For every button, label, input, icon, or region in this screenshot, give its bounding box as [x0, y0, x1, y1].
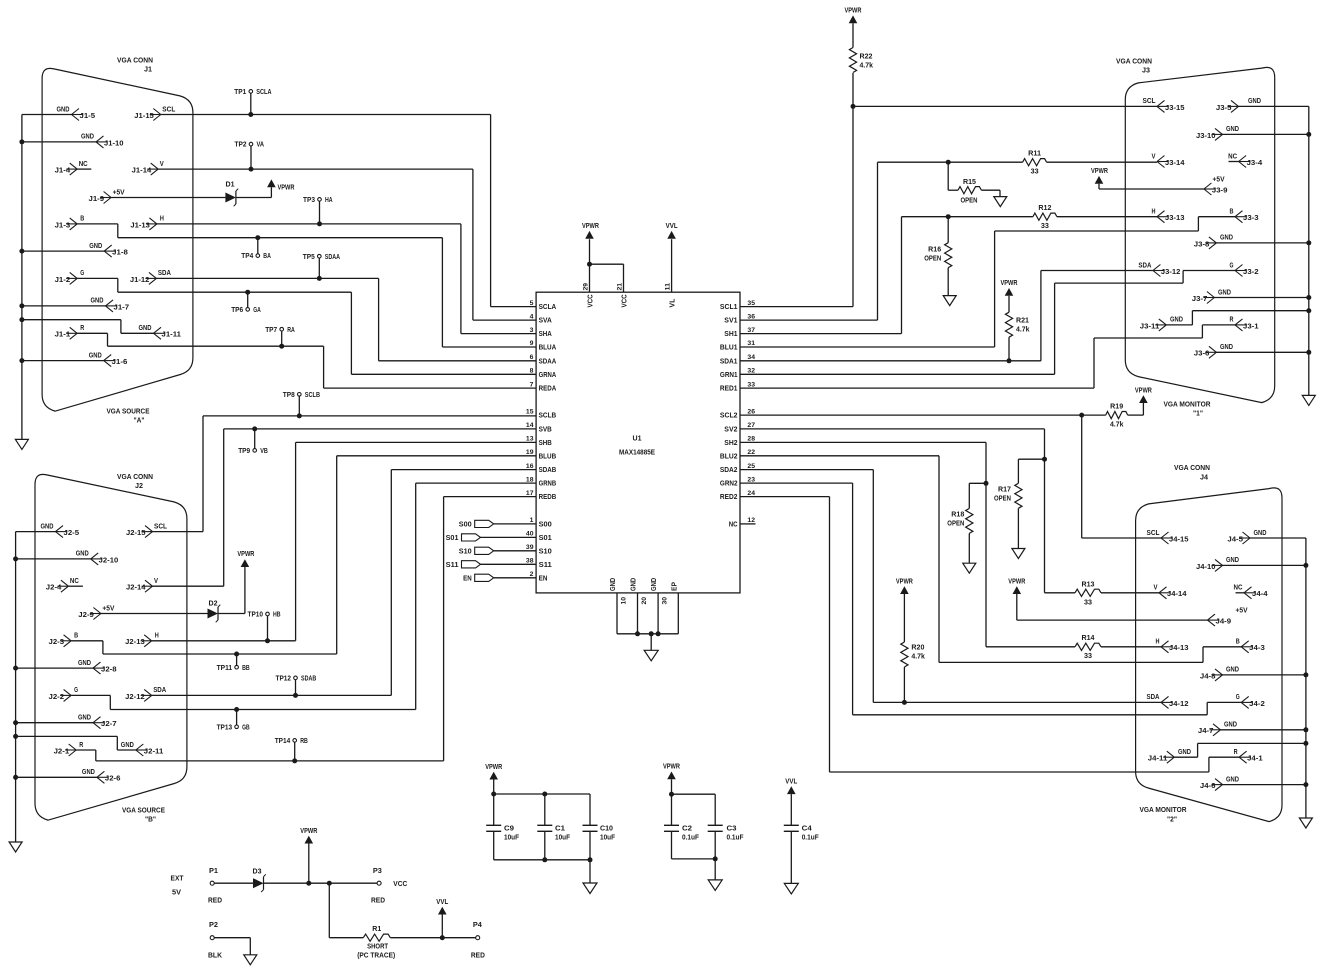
svg-text:0.1uF: 0.1uF [727, 835, 745, 842]
svg-text:P1: P1 [209, 868, 218, 875]
svg-text:SCL1: SCL1 [720, 304, 738, 311]
svg-text:SDA1: SDA1 [720, 358, 738, 365]
svg-text:R18: R18 [951, 512, 964, 519]
svg-text:33: 33 [1041, 223, 1049, 230]
svg-text:SDAB: SDAB [301, 676, 316, 683]
svg-text:37: 37 [747, 327, 755, 334]
svg-text:33: 33 [1084, 599, 1092, 606]
svg-text:28: 28 [747, 436, 755, 443]
svg-text:REDA: REDA [539, 386, 557, 393]
svg-text:J3-8: J3-8 [1194, 241, 1210, 248]
svg-text:VPWR: VPWR [485, 764, 502, 771]
svg-text:SCLB: SCLB [305, 392, 320, 399]
svg-text:13: 13 [526, 436, 534, 443]
svg-text:J4-13: J4-13 [1169, 645, 1189, 652]
svg-text:GND: GND [57, 106, 70, 113]
svg-text:VPWR: VPWR [1001, 280, 1018, 287]
svg-text:J3-15: J3-15 [1165, 105, 1185, 112]
svg-text:J3-7: J3-7 [1192, 296, 1208, 303]
svg-text:40: 40 [526, 531, 534, 538]
svg-text:16: 16 [526, 463, 534, 470]
svg-text:HB: HB [273, 612, 281, 619]
svg-text:SDAB: SDAB [539, 467, 557, 474]
svg-text:GND: GND [1218, 289, 1231, 296]
svg-text:VGA CONN: VGA CONN [1116, 59, 1152, 66]
svg-text:GND: GND [1220, 235, 1233, 242]
svg-text:J1-4: J1-4 [55, 168, 71, 175]
svg-text:5: 5 [530, 300, 534, 307]
svg-text:22: 22 [747, 449, 755, 456]
svg-text:OPEN: OPEN [994, 496, 1011, 503]
svg-text:29: 29 [583, 283, 590, 291]
svg-text:R: R [1234, 749, 1238, 756]
svg-text:38: 38 [526, 558, 534, 565]
svg-text:J1-14: J1-14 [132, 168, 152, 175]
svg-text:P4: P4 [473, 922, 482, 929]
svg-text:J4-10: J4-10 [1196, 564, 1216, 571]
svg-text:TP4: TP4 [241, 253, 253, 260]
svg-text:TP8: TP8 [283, 392, 295, 399]
svg-text:H: H [155, 633, 159, 640]
svg-text:GND: GND [1220, 344, 1233, 351]
svg-text:J2-5: J2-5 [64, 530, 80, 537]
svg-text:R20: R20 [911, 645, 924, 652]
svg-text:OPEN: OPEN [947, 521, 964, 528]
svg-text:GND: GND [1170, 317, 1183, 324]
svg-text:J4-12: J4-12 [1169, 701, 1189, 708]
svg-text:EN: EN [539, 575, 548, 582]
svg-text:GRNB: GRNB [539, 481, 557, 488]
svg-text:GND: GND [78, 660, 91, 667]
svg-text:J3-1: J3-1 [1243, 323, 1259, 330]
svg-text:J2-7: J2-7 [101, 721, 117, 728]
svg-text:TP11: TP11 [217, 665, 233, 672]
svg-text:GND: GND [1226, 667, 1239, 674]
svg-text:10: 10 [620, 597, 627, 605]
svg-text:R14: R14 [1082, 635, 1095, 642]
svg-text:S01: S01 [446, 535, 459, 542]
svg-text:1: 1 [530, 517, 534, 524]
svg-text:SCLB: SCLB [539, 413, 557, 420]
svg-text:J4-14: J4-14 [1167, 591, 1187, 598]
svg-text:0.1uF: 0.1uF [802, 835, 820, 842]
svg-text:GND: GND [121, 742, 134, 749]
svg-text:G: G [80, 270, 84, 277]
svg-text:VGA MONITOR: VGA MONITOR [1164, 402, 1211, 409]
svg-text:EN: EN [463, 575, 472, 582]
svg-text:R17: R17 [998, 487, 1011, 494]
svg-text:J1-11: J1-11 [162, 332, 182, 339]
svg-text:TP6: TP6 [231, 307, 243, 314]
svg-text:SCLA: SCLA [256, 89, 271, 96]
svg-text:C4: C4 [802, 826, 812, 833]
svg-text:J1-5: J1-5 [80, 113, 96, 120]
svg-text:TP1: TP1 [234, 89, 246, 96]
svg-text:VPWR: VPWR [237, 551, 254, 558]
svg-text:G: G [1230, 262, 1234, 269]
svg-text:J2-12: J2-12 [125, 694, 145, 701]
svg-text:J4-8: J4-8 [1200, 673, 1216, 680]
svg-text:27: 27 [747, 422, 755, 429]
svg-text:J3-4: J3-4 [1247, 160, 1263, 167]
svg-text:34: 34 [747, 354, 755, 361]
svg-text:VVL: VVL [436, 899, 449, 906]
svg-text:9: 9 [530, 340, 534, 347]
svg-text:J2-14: J2-14 [126, 585, 146, 592]
svg-text:J4-11: J4-11 [1148, 756, 1168, 763]
svg-text:R22: R22 [860, 54, 873, 61]
svg-text:+5V: +5V [1213, 177, 1225, 184]
svg-text:B: B [1236, 639, 1240, 646]
svg-text:21: 21 [617, 283, 624, 291]
svg-text:SCL: SCL [1147, 530, 1161, 537]
svg-text:OPEN: OPEN [924, 256, 941, 263]
svg-text:TP9: TP9 [238, 448, 250, 455]
svg-text:GND: GND [651, 578, 658, 591]
svg-text:GND: GND [631, 578, 638, 591]
svg-text:GND: GND [78, 715, 91, 722]
svg-text:VPWR: VPWR [1008, 578, 1025, 585]
svg-text:J4-6: J4-6 [1200, 783, 1216, 790]
svg-text:SDAA: SDAA [539, 358, 557, 365]
svg-text:SDA: SDA [153, 687, 166, 694]
svg-text:TP10: TP10 [248, 612, 264, 619]
svg-text:SCL2: SCL2 [720, 413, 738, 420]
svg-text:RA: RA [287, 327, 295, 334]
svg-text:SHORT: SHORT [367, 944, 389, 951]
svg-text:TP5: TP5 [303, 254, 315, 261]
svg-text:SV2: SV2 [724, 427, 737, 434]
svg-text:J4-4: J4-4 [1252, 591, 1268, 598]
svg-text:35: 35 [747, 300, 755, 307]
svg-text:SCL: SCL [162, 106, 176, 113]
svg-text:D3: D3 [253, 869, 262, 876]
svg-text:BLU2: BLU2 [720, 453, 738, 460]
svg-text:J1-13: J1-13 [130, 222, 150, 229]
svg-text:R15: R15 [963, 179, 976, 186]
svg-text:J1-3: J1-3 [55, 222, 71, 229]
svg-text:23: 23 [747, 476, 755, 483]
svg-text:REDB: REDB [539, 494, 557, 501]
svg-text:S00: S00 [539, 522, 552, 529]
svg-text:V: V [160, 161, 164, 168]
svg-text:SHA: SHA [539, 331, 552, 338]
svg-text:VGA CONN: VGA CONN [117, 58, 153, 65]
svg-text:C2: C2 [682, 826, 692, 833]
svg-text:TP13: TP13 [217, 724, 233, 731]
svg-text:VGA SOURCE: VGA SOURCE [107, 409, 150, 416]
svg-text:J4-2: J4-2 [1249, 701, 1265, 708]
svg-text:"1": "1" [1193, 411, 1203, 418]
svg-text:14: 14 [526, 422, 534, 429]
svg-text:GND: GND [1224, 722, 1237, 729]
svg-text:R13: R13 [1082, 581, 1095, 588]
svg-text:VL: VL [670, 298, 677, 308]
svg-text:J4-9: J4-9 [1216, 619, 1232, 626]
svg-text:NC: NC [1234, 585, 1243, 592]
svg-text:+5V: +5V [113, 189, 125, 196]
svg-text:GND: GND [1178, 749, 1191, 756]
svg-text:6: 6 [530, 354, 534, 361]
svg-text:SH1: SH1 [724, 331, 737, 338]
svg-text:MAX14885E: MAX14885E [619, 450, 655, 457]
svg-text:10uF: 10uF [555, 835, 571, 842]
svg-text:SVB: SVB [539, 427, 552, 434]
svg-text:B: B [80, 216, 84, 223]
svg-text:J2-4: J2-4 [46, 585, 62, 592]
svg-text:J1-1: J1-1 [55, 332, 71, 339]
svg-text:VPWR: VPWR [1135, 387, 1152, 394]
svg-text:(PC TRACE): (PC TRACE) [357, 953, 395, 960]
svg-text:VPWR: VPWR [582, 223, 599, 230]
svg-text:TP7: TP7 [265, 327, 277, 334]
svg-text:39: 39 [526, 544, 534, 551]
svg-text:SDA: SDA [1138, 262, 1151, 269]
svg-text:24: 24 [747, 490, 755, 497]
svg-text:SV1: SV1 [724, 318, 737, 325]
svg-text:J4-5: J4-5 [1227, 536, 1243, 543]
svg-text:R: R [1230, 317, 1234, 324]
svg-text:SCLA: SCLA [539, 304, 557, 311]
svg-text:25: 25 [747, 463, 755, 470]
svg-text:S01: S01 [539, 535, 552, 542]
svg-text:SCL: SCL [154, 523, 168, 530]
svg-text:RED: RED [371, 898, 385, 905]
svg-text:HA: HA [325, 197, 333, 204]
svg-text:R21: R21 [1016, 318, 1029, 325]
svg-text:S10: S10 [539, 548, 552, 555]
svg-text:33: 33 [747, 381, 755, 388]
svg-text:J4-7: J4-7 [1198, 728, 1214, 735]
svg-text:C9: C9 [504, 826, 514, 833]
svg-text:VPWR: VPWR [663, 764, 680, 771]
svg-text:4.7k: 4.7k [911, 654, 925, 661]
svg-text:D2: D2 [209, 601, 218, 608]
svg-text:VB: VB [260, 448, 268, 455]
svg-text:J2-9: J2-9 [78, 612, 94, 619]
svg-text:VGA MONITOR: VGA MONITOR [1140, 807, 1187, 814]
svg-text:R1: R1 [372, 926, 381, 933]
svg-text:GND: GND [89, 243, 102, 250]
svg-text:G: G [74, 687, 78, 694]
svg-text:S11: S11 [539, 562, 552, 569]
svg-text:33: 33 [1084, 653, 1092, 660]
svg-text:VGA SOURCE: VGA SOURCE [122, 808, 165, 815]
svg-text:J2: J2 [135, 483, 143, 490]
svg-text:BLUB: BLUB [539, 453, 557, 460]
svg-text:V: V [1152, 153, 1156, 160]
svg-text:S10: S10 [459, 548, 472, 555]
svg-text:GND: GND [1226, 776, 1239, 783]
svg-text:H: H [1156, 639, 1160, 646]
svg-text:B: B [1230, 209, 1234, 216]
svg-text:J3-2: J3-2 [1243, 269, 1259, 276]
svg-text:4.7k: 4.7k [1110, 422, 1124, 429]
svg-text:R16: R16 [928, 247, 941, 254]
svg-text:C10: C10 [600, 826, 613, 833]
svg-text:J3-9: J3-9 [1212, 187, 1228, 194]
svg-text:20: 20 [641, 597, 648, 605]
svg-text:SHB: SHB [539, 440, 552, 447]
svg-text:VCC: VCC [588, 294, 595, 307]
svg-text:V: V [154, 578, 158, 585]
svg-text:GND: GND [41, 523, 54, 530]
svg-text:VA: VA [257, 142, 265, 149]
svg-text:4.7k: 4.7k [860, 63, 874, 70]
svg-text:GND: GND [1254, 530, 1267, 537]
svg-text:36: 36 [747, 313, 755, 320]
svg-text:J1-10: J1-10 [104, 140, 124, 147]
svg-text:J4-1: J4-1 [1247, 756, 1263, 763]
svg-text:VCC: VCC [622, 294, 629, 307]
svg-text:GRNA: GRNA [539, 372, 557, 379]
svg-text:10uF: 10uF [600, 835, 616, 842]
svg-text:SCL: SCL [1143, 98, 1157, 105]
svg-text:GND: GND [91, 298, 104, 305]
svg-text:GND: GND [89, 352, 102, 359]
svg-text:BLUA: BLUA [539, 345, 557, 352]
svg-text:J3-13: J3-13 [1165, 215, 1185, 222]
svg-text:VPWR: VPWR [845, 8, 862, 15]
svg-text:J4-3: J4-3 [1249, 645, 1265, 652]
svg-text:VCC: VCC [393, 881, 407, 888]
svg-text:GND: GND [139, 325, 152, 332]
svg-text:TP12: TP12 [276, 676, 292, 683]
svg-text:J1-7: J1-7 [114, 304, 130, 311]
svg-text:G: G [1236, 694, 1240, 701]
svg-text:RED2: RED2 [720, 494, 738, 501]
svg-text:NC: NC [729, 522, 738, 529]
svg-text:+5V: +5V [102, 605, 114, 612]
svg-text:SDA: SDA [158, 270, 171, 277]
svg-text:J4-15: J4-15 [1169, 536, 1189, 543]
svg-text:VVL: VVL [785, 778, 798, 785]
svg-text:33: 33 [1031, 169, 1039, 176]
svg-text:GND: GND [81, 134, 94, 141]
svg-text:J3-10: J3-10 [1196, 133, 1216, 140]
svg-text:R19: R19 [1110, 404, 1123, 411]
svg-text:J2-2: J2-2 [49, 694, 65, 701]
svg-text:5V: 5V [172, 890, 181, 897]
svg-text:NC: NC [70, 578, 79, 585]
svg-text:V: V [1154, 585, 1158, 592]
svg-text:BLU1: BLU1 [720, 345, 738, 352]
svg-text:17: 17 [526, 490, 534, 497]
svg-text:J2-6: J2-6 [105, 776, 121, 783]
svg-text:J3-12: J3-12 [1161, 269, 1181, 276]
svg-text:J2-3: J2-3 [49, 639, 65, 646]
svg-text:TP3: TP3 [303, 197, 315, 204]
svg-text:GRN2: GRN2 [720, 481, 738, 488]
svg-text:BB: BB [242, 665, 250, 672]
svg-text:30: 30 [661, 597, 668, 605]
svg-text:D1: D1 [226, 182, 235, 189]
svg-text:SDA2: SDA2 [720, 467, 738, 474]
svg-text:J2-8: J2-8 [101, 667, 117, 674]
svg-text:12: 12 [747, 517, 755, 524]
svg-text:J3-5: J3-5 [1216, 105, 1232, 112]
svg-text:VPWR: VPWR [896, 578, 913, 585]
svg-text:RED: RED [208, 898, 222, 905]
svg-text:J1-8: J1-8 [112, 250, 128, 257]
svg-text:GA: GA [253, 307, 261, 314]
svg-text:SDAA: SDAA [325, 254, 340, 261]
svg-text:J2-15: J2-15 [126, 530, 146, 537]
svg-text:J2-13: J2-13 [125, 639, 145, 646]
svg-text:GND: GND [76, 551, 89, 558]
svg-text:2: 2 [530, 571, 534, 578]
svg-text:BA: BA [263, 253, 271, 260]
svg-text:OPEN: OPEN [961, 198, 978, 205]
svg-text:GND: GND [610, 578, 617, 591]
svg-text:J3-6: J3-6 [1194, 351, 1210, 358]
svg-text:R: R [80, 325, 84, 332]
svg-text:J3-14: J3-14 [1165, 160, 1185, 167]
svg-text:18: 18 [526, 476, 534, 483]
svg-text:GND: GND [1226, 557, 1239, 564]
svg-text:C3: C3 [727, 826, 737, 833]
svg-text:GRN1: GRN1 [720, 372, 738, 379]
svg-text:J3-3: J3-3 [1243, 215, 1259, 222]
svg-text:J1-6: J1-6 [112, 359, 128, 366]
svg-text:J1: J1 [144, 67, 152, 74]
svg-text:P3: P3 [373, 868, 382, 875]
svg-text:10uF: 10uF [504, 835, 520, 842]
svg-text:J2-1: J2-1 [54, 748, 70, 755]
svg-text:"2": "2" [1167, 817, 1177, 824]
svg-text:GND: GND [1226, 126, 1239, 133]
svg-text:"A": "A" [134, 418, 145, 425]
svg-text:RED: RED [471, 953, 485, 960]
svg-text:31: 31 [747, 340, 755, 347]
svg-text:3: 3 [530, 327, 534, 334]
svg-text:U1: U1 [633, 436, 642, 443]
svg-text:"B": "B" [145, 817, 156, 824]
svg-text:RED1: RED1 [720, 386, 738, 393]
svg-text:H: H [1152, 209, 1156, 216]
svg-text:SH2: SH2 [724, 440, 737, 447]
svg-text:B: B [74, 633, 78, 640]
svg-text:S00: S00 [459, 522, 472, 529]
svg-text:EP: EP [671, 582, 678, 591]
svg-text:J1-9: J1-9 [89, 196, 105, 203]
svg-text:26: 26 [747, 408, 755, 415]
svg-text:15: 15 [526, 408, 534, 415]
svg-text:VVL: VVL [666, 223, 679, 230]
svg-text:GND: GND [82, 769, 95, 776]
svg-text:VGA CONN: VGA CONN [1174, 465, 1210, 472]
svg-text:TP14: TP14 [275, 738, 291, 745]
svg-text:VPWR: VPWR [300, 828, 317, 835]
svg-text:NC: NC [79, 161, 88, 168]
svg-text:J1-12: J1-12 [130, 277, 150, 284]
svg-text:TP2: TP2 [235, 142, 247, 149]
svg-text:4: 4 [530, 313, 534, 320]
svg-text:J1-15: J1-15 [134, 113, 154, 120]
svg-text:R: R [79, 742, 83, 749]
svg-text:NC: NC [1228, 153, 1237, 160]
svg-text:S11: S11 [446, 562, 459, 569]
svg-text:RB: RB [300, 738, 308, 745]
svg-text:8: 8 [530, 368, 534, 375]
svg-text:J2-10: J2-10 [99, 557, 119, 564]
svg-text:EXT: EXT [171, 876, 185, 883]
svg-text:BLK: BLK [208, 953, 222, 960]
svg-text:GND: GND [1248, 98, 1261, 105]
svg-text:GB: GB [242, 724, 250, 731]
svg-text:J3: J3 [1142, 68, 1150, 75]
svg-text:J4: J4 [1200, 475, 1208, 482]
